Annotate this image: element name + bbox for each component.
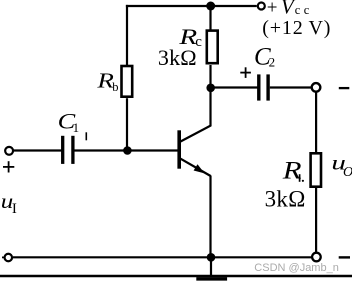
wire: bottom-left stub	[2, 256, 4, 258]
node: emitter junction dot	[207, 253, 216, 262]
transistor Q1 emitter diagonal	[180, 159, 210, 176]
label: minus top right	[339, 87, 350, 89]
node: top bus junction dot	[206, 2, 215, 11]
wire: C1 to base	[74, 149, 178, 151]
label: minus bottom right	[339, 256, 350, 258]
svg-text:b: b	[112, 80, 118, 94]
wire: RL down to bottom terminal	[315, 188, 317, 254]
node: collector junction dot	[206, 84, 215, 93]
svg-text:1: 1	[73, 120, 80, 135]
svg-text:2: 2	[269, 55, 276, 70]
terminal: Vcc open circle	[258, 3, 265, 10]
wire: Rb bottom (down to base node)	[126, 98, 128, 151]
resistor Rc	[207, 31, 218, 64]
label: C2 plus sign	[240, 67, 251, 78]
resistor RL	[311, 153, 321, 186]
terminal: output top open circle	[312, 83, 321, 92]
wire: output terminal down to RL	[315, 92, 317, 153]
wire: bottom bus	[13, 256, 313, 258]
wire: collector vertical (dot at collector node down to diagonal)	[209, 65, 211, 126]
svg-text:I: I	[12, 201, 17, 217]
ground bar	[196, 277, 227, 281]
svg-text:cc: cc	[295, 3, 313, 17]
ground stem	[210, 257, 212, 276]
transistor Q1 base bar	[177, 130, 181, 168]
wire: collector node to C2	[211, 86, 259, 88]
transistor Q1 collector diagonal	[180, 125, 211, 141]
capacitor C2	[257, 74, 260, 100]
svg-text:O: O	[343, 165, 352, 180]
svg-text:CSDN @Jamb_n: CSDN @Jamb_n	[254, 262, 339, 274]
terminal: bottom right open circle	[312, 253, 321, 262]
terminal: input (top-left open circle)	[5, 147, 13, 155]
svg-text:(+12 V): (+12 V)	[262, 17, 331, 39]
svg-text:+: +	[267, 0, 278, 18]
wire: input to C1	[14, 149, 62, 151]
wire: emitter vertical down to bottom bus	[209, 176, 211, 258]
wire: C2 to output terminal	[270, 86, 312, 88]
wire: Rb top (from top bus down to Rb)	[126, 5, 128, 65]
transistor Q1 emitter arrow	[194, 164, 205, 173]
wire: top supply bus	[126, 5, 257, 7]
node: base junction dot	[123, 146, 132, 155]
label: small tick after C1	[85, 132, 87, 140]
label: input plus sign	[3, 161, 14, 172]
terminal: bottom left open circle	[5, 254, 13, 262]
capacitor C1	[61, 136, 64, 164]
resistor Rb	[122, 66, 133, 97]
wire: bottom rule across page	[0, 275, 352, 277]
wire: Rc top	[209, 6, 211, 31]
svg-text:V: V	[281, 0, 296, 19]
svg-text:R: R	[282, 157, 302, 184]
svg-text:3kΩ: 3kΩ	[158, 45, 197, 70]
svg-text:3kΩ: 3kΩ	[265, 187, 306, 212]
